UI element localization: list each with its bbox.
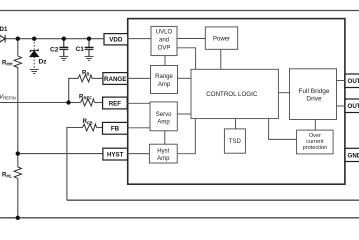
resistor R_B bbox=[78, 75, 92, 82]
svg-text:C2: C2 bbox=[50, 47, 59, 54]
svg-text:HYST: HYST bbox=[107, 152, 124, 159]
pin FB bbox=[103, 122, 128, 134]
resistor R_REF bbox=[81, 99, 95, 106]
wire UVLO to control logic bbox=[177, 48, 196, 70]
wire top VDD rail bbox=[7, 38, 104, 40]
svg-text:protection: protection bbox=[303, 145, 328, 151]
wire VDD to UVLO bbox=[128, 38, 151, 40]
block Power bbox=[205, 27, 237, 49]
capacitor C2 bbox=[59, 39, 68, 57]
svg-text:RANGE: RANGE bbox=[104, 76, 126, 83]
svg-text:Amp: Amp bbox=[158, 82, 171, 88]
block UVLO and OVP bbox=[151, 26, 177, 55]
svg-text:Dz: Dz bbox=[39, 59, 48, 66]
svg-text:Drive: Drive bbox=[306, 95, 322, 102]
pin VDD bbox=[104, 34, 128, 45]
internal wires bbox=[127, 39, 345, 154]
wire Servo Amp to control logic bbox=[177, 113, 191, 115]
svg-text:Servo: Servo bbox=[156, 112, 172, 118]
wire UVLO to Power bbox=[177, 38, 205, 40]
svg-text:and: and bbox=[159, 38, 169, 44]
resistor R_FB bbox=[83, 124, 97, 131]
block Servo Amp bbox=[150, 102, 177, 131]
svg-text:GND: GND bbox=[348, 152, 359, 159]
wire left rail mid bbox=[17, 68, 19, 154]
svg-text:UVLO: UVLO bbox=[156, 30, 173, 36]
wire UVLO to Range Amp bbox=[164, 56, 166, 66]
svg-text:OUT: OUT bbox=[348, 103, 359, 110]
wire Range Amp to control logic bbox=[178, 77, 192, 79]
wire HYST row bbox=[18, 153, 103, 155]
svg-text:OVP: OVP bbox=[158, 46, 171, 52]
wire control logic to over current protection bbox=[269, 119, 297, 140]
svg-text:TSD: TSD bbox=[229, 139, 242, 145]
pin OUTA bbox=[345, 74, 359, 88]
wire control logic to Full Bridge Drive bbox=[278, 92, 289, 94]
wire REF to Servo Amp bbox=[127, 102, 150, 104]
block Full Bridge Drive bbox=[290, 69, 337, 120]
wire Full Bridge Drive to over current protection bbox=[314, 120, 316, 131]
wire left rail upper bbox=[17, 39, 19, 56]
wire TSD to control logic bbox=[235, 119, 237, 129]
svg-text:CONTROL LOGIC: CONTROL LOGIC bbox=[206, 91, 258, 98]
wire Hyst Amp to control logic bbox=[177, 119, 195, 154]
svg-text:OUT: OUT bbox=[348, 78, 359, 85]
pin HYST bbox=[103, 148, 128, 160]
node junction dots bbox=[16, 37, 92, 221]
pin REF bbox=[103, 97, 128, 109]
svg-text:FB: FB bbox=[111, 126, 120, 133]
diode D1 bbox=[0, 35, 7, 43]
resistor R_HL bbox=[14, 167, 21, 179]
svg-text:C1: C1 bbox=[76, 46, 85, 53]
svg-text:VDD: VDD bbox=[109, 37, 123, 44]
wire left rail lower bbox=[17, 154, 19, 167]
svg-text:Power: Power bbox=[213, 36, 230, 42]
wire lower return line bbox=[67, 199, 359, 201]
wire left rail bottom bbox=[17, 179, 19, 218]
wire RANGE to Range Amp bbox=[128, 77, 151, 79]
ground (C1) bbox=[85, 56, 94, 60]
block TSD bbox=[224, 129, 245, 153]
block Range Amp bbox=[151, 66, 178, 94]
svg-text:Amp: Amp bbox=[157, 156, 170, 162]
svg-text:Amp: Amp bbox=[157, 120, 170, 126]
wire FB to Servo Amp bbox=[128, 127, 150, 129]
resistor R_HH bbox=[14, 56, 21, 68]
svg-text:REF: REF bbox=[109, 100, 122, 107]
wire Full Bridge Drive to OUTA bbox=[337, 80, 346, 82]
pin RANGE bbox=[103, 73, 128, 85]
svg-text:Range: Range bbox=[155, 74, 173, 80]
IC outline U1 bbox=[128, 19, 345, 185]
wire R_REF to REF bbox=[95, 102, 103, 104]
svg-text:Hyst: Hyst bbox=[157, 149, 169, 155]
block Hyst Amp bbox=[149, 144, 177, 163]
zener diode Dz bbox=[33, 39, 35, 69]
wire R_FB to FB bbox=[97, 127, 103, 129]
svg-text:Over: Over bbox=[309, 133, 321, 139]
wire R_B to RANGE bbox=[92, 77, 103, 79]
block CONTROL LOGIC bbox=[191, 69, 278, 118]
wire Servo Amp to Hyst Amp bbox=[164, 131, 166, 144]
wire V_REFIN to R_REF bbox=[69, 102, 81, 104]
ground (Dz) bbox=[30, 69, 39, 73]
wire ground rail bottom bbox=[0, 217, 359, 219]
wire Full Bridge Drive to OUTB bbox=[337, 105, 346, 107]
wire R_B branch vertical bbox=[69, 78, 78, 102]
pin GND bbox=[345, 148, 359, 161]
block over current protection bbox=[297, 130, 334, 154]
wire HYST to Hyst Amp bbox=[128, 153, 150, 155]
wire FB branch vertical bbox=[67, 128, 83, 201]
svg-text:current: current bbox=[306, 139, 324, 145]
capacitor C1 bbox=[85, 39, 94, 57]
wire V_REFIN rail bbox=[0, 102, 69, 104]
pin OUTB bbox=[345, 99, 359, 113]
wire top supply line bbox=[0, 10, 359, 12]
svg-text:D1: D1 bbox=[0, 26, 8, 33]
wire Power to control logic bbox=[220, 49, 222, 69]
ground (C2) bbox=[59, 56, 68, 60]
svg-text:Full Bridge: Full Bridge bbox=[298, 88, 329, 95]
